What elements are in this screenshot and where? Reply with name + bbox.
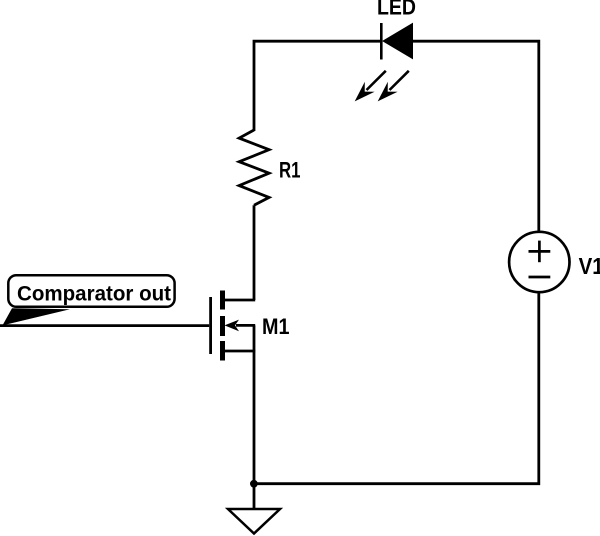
ground lead wire <box>253 484 256 510</box>
callout text <box>17 281 171 305</box>
wire M1 source down to ground node <box>253 351 256 485</box>
wire R1 to MOSFET drain <box>253 205 256 300</box>
MOSFET M1 drain stub <box>223 299 255 302</box>
M1 label <box>262 314 290 339</box>
V1 minus sign <box>529 276 551 279</box>
LED triangle <box>383 24 413 59</box>
voltage source V1 circle <box>509 232 569 292</box>
R1 label <box>279 157 301 182</box>
svg-text:R1: R1 <box>279 157 301 182</box>
svg-text:LED: LED <box>377 0 416 19</box>
MOSFET M1 body-source connection <box>253 325 256 351</box>
wire V1 bottom to corner <box>254 293 539 484</box>
junction dot node <box>250 480 258 488</box>
wire LED to top-right corner <box>413 41 539 231</box>
V1 plus sign <box>529 241 551 263</box>
V1 label <box>579 253 600 279</box>
LED cathode bar <box>380 23 383 60</box>
LED label <box>377 0 416 19</box>
callout box Comparator out <box>3 275 175 325</box>
wire top-left from R1 up and across to LED <box>254 41 381 131</box>
svg-text:M1: M1 <box>262 314 290 339</box>
MOSFET M1 gate bar <box>209 297 212 354</box>
LED light arrow 2 <box>378 71 409 102</box>
svg-text:V1: V1 <box>579 253 600 279</box>
svg-text:Comparator out: Comparator out <box>17 281 171 305</box>
MOSFET M1 gate lead wire <box>0 324 209 327</box>
MOSFET M1 channel segments <box>220 291 225 361</box>
MOSFET M1 source stub <box>223 350 255 353</box>
MOSFET M1 body arrow <box>225 320 256 332</box>
LED light arrow 1 <box>355 71 386 102</box>
ground symbol triangle <box>228 509 280 534</box>
resistor R1 <box>239 130 269 205</box>
